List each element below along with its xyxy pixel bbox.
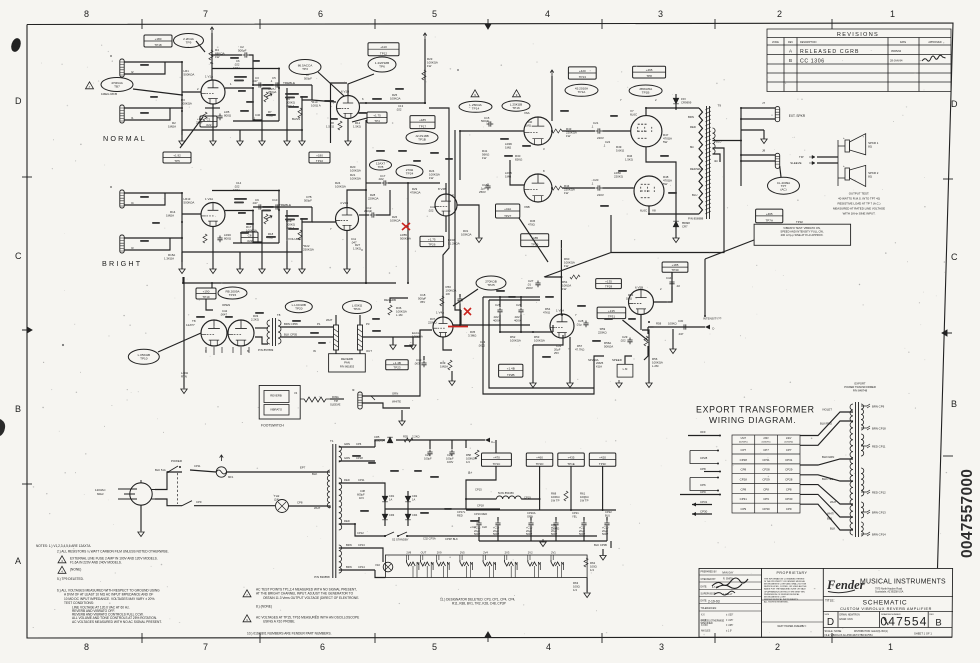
svg-text:WHT: WHT bbox=[326, 318, 333, 322]
wire to ground bbox=[212, 252, 214, 269]
heater bbox=[406, 560, 415, 566]
capacitor C21 bbox=[596, 128, 603, 133]
svg-text:VIOLET: VIOLET bbox=[822, 408, 832, 412]
svg-text:3.3MΩ: 3.3MΩ bbox=[468, 334, 476, 338]
ground bbox=[181, 386, 187, 394]
svg-text:CP11: CP11 bbox=[358, 478, 365, 482]
wire V7 plate to OT bbox=[646, 108, 699, 116]
wire grid V1A bbox=[182, 91, 201, 93]
treble pot bright bbox=[264, 214, 268, 224]
svg-text:CP12: CP12 bbox=[357, 531, 364, 535]
wire bbox=[346, 252, 348, 269]
wire V4A cathode bbox=[443, 337, 452, 350]
wire to speed pot bbox=[594, 356, 604, 377]
svg-text:BLK/YEL: BLK/YEL bbox=[822, 477, 834, 481]
svg-text:SCHEMATIC: SCHEMATIC bbox=[863, 599, 908, 606]
title block title divider bbox=[823, 596, 953, 598]
wire to ground bbox=[239, 252, 241, 269]
svg-text:TP4: TP4 bbox=[374, 119, 380, 123]
svg-text:C21: C21 bbox=[593, 121, 599, 125]
svg-text:.003: .003 bbox=[414, 362, 420, 366]
svg-text:REV: REV bbox=[788, 41, 793, 44]
svg-text:Scottsdale, AZ 85258 USA: Scottsdale, AZ 85258 USA bbox=[875, 591, 904, 594]
svg-text:CP14: CP14 bbox=[358, 565, 365, 569]
triode V4B bbox=[435, 194, 457, 216]
svg-text:CP15: CP15 bbox=[475, 488, 482, 492]
svg-text:BLU: BLU bbox=[692, 193, 697, 197]
svg-text:+110: +110 bbox=[380, 45, 387, 49]
export transformer primary coil bbox=[850, 404, 853, 535]
triode V3A bbox=[201, 320, 227, 346]
wire tone drop bright 3 bbox=[301, 218, 303, 252]
svg-text:DATE:: DATE: bbox=[701, 585, 708, 588]
svg-text:TP20: TP20 bbox=[295, 307, 303, 311]
svg-text:USING A X10 PROBE.: USING A X10 PROBE. bbox=[263, 620, 295, 624]
svg-text:TP8: TP8 bbox=[646, 74, 652, 78]
svg-text:GRN: GRN bbox=[344, 442, 350, 446]
svg-text:WHITE: WHITE bbox=[392, 400, 401, 404]
wire to J7 tip bbox=[741, 107, 775, 109]
reverb transformer core bbox=[275, 318, 277, 346]
svg-text:R. SMITH: R. SMITH bbox=[723, 578, 733, 580]
capacitor C1 box bbox=[200, 116, 217, 127]
svg-text:+1.75: +1.75 bbox=[428, 237, 436, 241]
ground vibrato bbox=[567, 380, 573, 388]
wire cap to rail bbox=[606, 528, 608, 542]
svg-text:400V: 400V bbox=[493, 319, 500, 323]
svg-text:100KΩ: 100KΩ bbox=[668, 322, 677, 326]
svg-text:1MΩ: 1MΩ bbox=[505, 175, 512, 179]
svg-text:A: A bbox=[15, 556, 21, 566]
export wiring table bbox=[732, 435, 800, 513]
svg-text:.0022: .0022 bbox=[478, 344, 485, 348]
wire cathode node bbox=[205, 107, 220, 109]
svg-text:1.5KΩ: 1.5KΩ bbox=[625, 158, 633, 162]
svg-text:TP3: TP3 bbox=[302, 67, 308, 71]
wire tip to speakers bbox=[817, 156, 838, 158]
wire line neutral bbox=[155, 499, 182, 506]
wire osc feed join bbox=[545, 276, 561, 278]
svg-text:CP29: CP29 bbox=[785, 468, 793, 472]
wire to J7 sleeve bbox=[741, 118, 775, 120]
svg-text:220KΩ: 220KΩ bbox=[428, 321, 437, 325]
svg-text:5.6KΩ: 5.6KΩ bbox=[616, 149, 625, 153]
svg-text:CR1: CR1 bbox=[389, 494, 395, 498]
test point oval reverb TP10 bbox=[128, 349, 159, 364]
wire to J8 tip bbox=[741, 154, 775, 156]
svg-text:MF1: MF1 bbox=[228, 475, 234, 479]
reverb transformer secondary bbox=[278, 320, 281, 344]
wire tone drop bright 1 bbox=[261, 210, 263, 252]
note triangle 3 bbox=[58, 556, 66, 563]
svg-text:220KΩ: 220KΩ bbox=[551, 527, 559, 531]
svg-text:6: 6 bbox=[320, 642, 325, 652]
svg-text:CP9: CP9 bbox=[196, 500, 202, 504]
thermistor TH2 bbox=[276, 500, 289, 513]
svg-text:8Ω: 8Ω bbox=[690, 145, 694, 149]
wire C2 left bbox=[212, 54, 242, 56]
svg-text:28-JAN-94: 28-JAN-94 bbox=[890, 59, 903, 63]
svg-text:TREBLE: TREBLE bbox=[283, 81, 295, 85]
wire tone upper rail bright bbox=[212, 191, 279, 244]
ground bbox=[390, 342, 396, 350]
svg-text:± .005": ± .005" bbox=[726, 625, 733, 627]
svg-text:.01μ: .01μ bbox=[576, 323, 582, 327]
svg-text:+135: +135 bbox=[608, 309, 615, 313]
test point box TP17 bbox=[410, 116, 435, 129]
RCA jack reverb send bbox=[334, 325, 339, 350]
reverb pot bbox=[388, 305, 392, 315]
svg-text:+1.4B: +1.4B bbox=[507, 367, 515, 371]
wire plate V1A out bbox=[225, 87, 253, 89]
svg-text:WIRING DIAGRAM.: WIRING DIAGRAM. bbox=[709, 415, 796, 425]
svg-text:1W: 1W bbox=[562, 287, 567, 291]
wire to ground bbox=[239, 130, 241, 141]
svg-text:BLK/RED: BLK/RED bbox=[820, 422, 832, 426]
svg-text:8 V4B: 8 V4B bbox=[438, 187, 446, 191]
capacitor C29 bbox=[627, 338, 632, 345]
wire to ground bbox=[261, 252, 263, 269]
vibrato output coupling bbox=[669, 280, 674, 287]
wire mixer bus right bbox=[407, 183, 409, 283]
svg-text:REV: REV bbox=[930, 614, 935, 616]
svg-text:BRN CP9: BRN CP9 bbox=[872, 404, 885, 408]
test point box TP1D bbox=[526, 453, 553, 466]
svg-text:100μF: 100μF bbox=[424, 457, 432, 461]
svg-text:CR3: CR3 bbox=[389, 513, 395, 517]
svg-text:1W: 1W bbox=[564, 191, 569, 195]
svg-text:TP17: TP17 bbox=[419, 124, 427, 128]
wire bottom rail normal bbox=[182, 129, 302, 131]
svg-text:2V1: 2V1 bbox=[551, 551, 556, 555]
wire zener bottom bbox=[675, 104, 677, 110]
svg-text:BRN CP13: BRN CP13 bbox=[872, 510, 886, 514]
svg-text:CP3P BLK: CP3P BLK bbox=[445, 537, 458, 541]
supply arrow mixer bbox=[423, 33, 427, 39]
svg-text:ALL RIGHTS RESERVED.: ALL RIGHTS RESERVED. bbox=[764, 600, 789, 603]
svg-text:2V5: 2V5 bbox=[460, 551, 465, 555]
svg-text:TP12: TP12 bbox=[380, 52, 388, 56]
svg-text:.022: .022 bbox=[378, 177, 384, 181]
wire RED CP11 bbox=[339, 483, 385, 491]
svg-text:100KΩA: 100KΩA bbox=[390, 219, 401, 223]
svg-text:CP30: CP30 bbox=[785, 497, 793, 501]
wire bridge mid bbox=[385, 508, 408, 510]
wire bias rail bbox=[396, 439, 485, 441]
diode bbox=[387, 437, 393, 443]
wire mixer plate supply bbox=[424, 39, 426, 103]
svg-text:7: 7 bbox=[203, 642, 208, 652]
T1 HV winding bbox=[339, 478, 342, 530]
svg-text:12AT7: 12AT7 bbox=[186, 323, 195, 327]
test point box TP4 bbox=[367, 112, 387, 123]
wire to ground bbox=[301, 130, 303, 141]
svg-text:C32 CP3A: C32 CP3A bbox=[423, 537, 436, 541]
svg-text:BLU: BLU bbox=[605, 514, 610, 518]
svg-text:100KΩA: 100KΩA bbox=[350, 169, 361, 173]
svg-text:2.) ALL RESISTORS ¼ WATT CARBO: 2.) ALL RESISTORS ¼ WATT CARBON FILM UNL… bbox=[57, 550, 169, 554]
svg-text:C: C bbox=[951, 252, 958, 262]
wire osc top bbox=[483, 296, 540, 298]
wire bottom rail bright bbox=[182, 251, 302, 253]
capacitor C28 bbox=[583, 321, 588, 328]
svg-text:I3: I3 bbox=[131, 246, 134, 250]
svg-text:IS THE PROPERTY OF FENDER MUSI: IS THE PROPERTY OF FENDER MUSICAL bbox=[764, 580, 806, 583]
svg-text:047554: 047554 bbox=[880, 615, 927, 629]
test point oval TP8 bbox=[370, 160, 392, 170]
wire bbox=[602, 549, 604, 556]
svg-text:B+: B+ bbox=[468, 471, 472, 475]
svg-text:P/N 830858: P/N 830858 bbox=[314, 575, 330, 579]
svg-text:GRN: GRN bbox=[344, 456, 350, 460]
svg-text:5: 5 bbox=[432, 642, 437, 652]
test point box TP26 bbox=[420, 236, 444, 246]
wire V5A cathode bbox=[533, 335, 563, 345]
svg-text:CR2: CR2 bbox=[412, 494, 418, 498]
svg-text:CP21: CP21 bbox=[572, 511, 579, 515]
svg-text:ANGLES: ANGLES bbox=[701, 629, 711, 632]
svg-text:47KΩ: 47KΩ bbox=[543, 311, 550, 315]
label smudges power amp bbox=[500, 138, 509, 140]
svg-text:VOLUME: VOLUME bbox=[288, 237, 301, 241]
wire to ground bbox=[212, 130, 214, 141]
wire C2 right bbox=[249, 55, 253, 85]
wire OT secondary out bbox=[713, 140, 742, 142]
wire NFB run bbox=[611, 148, 724, 253]
test point oval TP21 bbox=[343, 301, 372, 314]
wire leader TP4 bbox=[352, 118, 367, 122]
triode V6A phase inverter bbox=[524, 117, 552, 145]
svg-text:500pF: 500pF bbox=[304, 77, 312, 81]
wire V5B plate bbox=[654, 272, 673, 302]
wire plate V2B up bbox=[347, 190, 366, 208]
wire C25 stub bbox=[499, 297, 501, 307]
svg-text:REVISIONS: REVISIONS bbox=[837, 32, 879, 38]
svg-text:CP16 RED: CP16 RED bbox=[474, 512, 487, 516]
svg-text:TP31: TP31 bbox=[608, 314, 616, 318]
wire slope resistor bbox=[253, 88, 262, 120]
wire jack I1 sleeve bbox=[124, 108, 170, 120]
wire jack ground bbox=[763, 130, 765, 139]
svg-text:+460: +460 bbox=[536, 456, 543, 460]
svg-text:(50/60Hz): (50/60Hz) bbox=[739, 442, 748, 444]
wire jack I3 tip bbox=[124, 237, 182, 239]
ground bbox=[237, 138, 243, 146]
red correction line bbox=[448, 326, 468, 328]
wire bbox=[692, 513, 712, 515]
svg-text:C8: C8 bbox=[248, 234, 252, 238]
leader oval reverb bbox=[158, 333, 201, 352]
svg-text:B: B bbox=[789, 58, 792, 63]
wire cap stub bbox=[478, 517, 480, 521]
wire V7 cathode bbox=[646, 147, 676, 218]
wire cap stub bbox=[497, 517, 499, 521]
ground vibrato bbox=[616, 380, 622, 388]
scan artifact speck bbox=[62, 344, 64, 346]
heater bbox=[505, 560, 514, 566]
wire PI tail bbox=[510, 160, 524, 185]
svg-text:CP7: CP7 bbox=[740, 448, 746, 452]
svg-text:R58: R58 bbox=[656, 322, 662, 326]
svg-text:4: 4 bbox=[545, 9, 550, 19]
svg-text:THE INFORMATION CONTAINED HERE: THE INFORMATION CONTAINED HEREIN bbox=[764, 578, 805, 581]
svg-text:C1: C1 bbox=[207, 118, 211, 122]
test point box TP27 bbox=[496, 204, 520, 218]
ground vibrato bbox=[646, 380, 652, 388]
svg-text:CP8: CP8 bbox=[740, 468, 746, 472]
wire tone drop bright 2 bbox=[286, 210, 288, 252]
svg-text:± .030": ± .030" bbox=[726, 615, 733, 617]
ground bbox=[476, 235, 482, 243]
wire zener top bbox=[675, 94, 677, 98]
wire V1B output bbox=[360, 102, 426, 104]
svg-text:WHT/: WHT/ bbox=[827, 512, 834, 516]
svg-text:± 1.0°: ± 1.0° bbox=[726, 630, 732, 632]
export transformer tap labels bbox=[861, 404, 870, 408]
svg-text:100KΩA: 100KΩA bbox=[335, 185, 346, 189]
footswitch cable bbox=[300, 397, 330, 402]
svg-text:TP16: TP16 bbox=[512, 106, 520, 110]
wire standby out bbox=[407, 535, 440, 537]
svg-text:CP9: CP9 bbox=[763, 497, 769, 501]
svg-text:CP8: CP8 bbox=[786, 487, 792, 491]
svg-text:100KΩA: 100KΩA bbox=[461, 233, 472, 237]
svg-text:1: 1 bbox=[888, 642, 893, 652]
svg-text:L.1M: L.1M bbox=[396, 313, 403, 317]
svg-text:CP22: CP22 bbox=[605, 510, 612, 514]
svg-text:SPECIFIED: SPECIFIED bbox=[701, 623, 713, 625]
wire jack I3 sleeve bbox=[124, 238, 170, 250]
wire B+ riser 2 bbox=[539, 466, 541, 510]
svg-text:8: 8 bbox=[84, 9, 89, 19]
svg-text:TP18: TP18 bbox=[154, 43, 162, 47]
wire speaker bus bbox=[740, 108, 742, 186]
svg-text:TP23: TP23 bbox=[393, 366, 401, 370]
wire PI tail diagonal bbox=[519, 218, 548, 262]
revisions table bbox=[767, 29, 951, 92]
svg-text:P/N 856988: P/N 856988 bbox=[688, 217, 704, 221]
ground bbox=[284, 138, 290, 146]
wire V4A plate feed bbox=[442, 260, 444, 317]
wire cathode V4B bbox=[445, 216, 447, 232]
switch gang dashed link bbox=[177, 473, 179, 504]
reverb transformer core bbox=[272, 318, 274, 346]
svg-text:100KΩA: 100KΩA bbox=[510, 339, 521, 343]
svg-text:DATE:: DATE: bbox=[701, 599, 708, 602]
wire stub bbox=[392, 337, 394, 345]
title block lower row dividers bbox=[823, 612, 953, 628]
wire cap to rail bbox=[530, 528, 532, 542]
svg-text:.047: .047 bbox=[252, 79, 258, 83]
wire line safety ground bbox=[140, 505, 142, 531]
label smudges input area bbox=[140, 64, 149, 66]
wire cable to jack bbox=[330, 398, 344, 400]
svg-text:100V: 100V bbox=[447, 460, 453, 464]
wire B+ bus preamp bbox=[183, 282, 396, 284]
wire PI to C20 bbox=[562, 187, 595, 189]
ground vibrato bbox=[530, 380, 536, 388]
wire sleeve to speakers bbox=[817, 162, 838, 164]
wire bias bus bbox=[440, 535, 597, 537]
test point box TP1F bbox=[589, 453, 616, 466]
wire B+ bus lower bbox=[466, 509, 616, 511]
svg-text:CR7: CR7 bbox=[682, 225, 688, 229]
svg-text:100KΩA: 100KΩA bbox=[466, 457, 476, 461]
test point oval TP1Bb bbox=[629, 85, 662, 96]
choke L1 bbox=[496, 496, 521, 499]
wire reverb return bus bbox=[183, 277, 185, 388]
speed pot box bbox=[617, 364, 633, 377]
test point oval TP9 bbox=[174, 34, 204, 48]
svg-text:250pA: 250pA bbox=[268, 90, 276, 94]
wire to ground bbox=[261, 130, 263, 141]
resistor R61 symbol bbox=[564, 491, 568, 501]
svg-text:C22: C22 bbox=[605, 140, 611, 144]
svg-text:BLK: BLK bbox=[830, 527, 835, 531]
wire tone lower rail bright bbox=[233, 242, 279, 244]
test point box TP18 bbox=[144, 35, 172, 47]
footswitch box bbox=[259, 386, 300, 420]
svg-text:220KΩ: 220KΩ bbox=[598, 331, 607, 335]
svg-text:220KΩA: 220KΩA bbox=[368, 197, 379, 201]
svg-text:KΩA: KΩA bbox=[596, 365, 602, 369]
volume pot bright bbox=[298, 230, 302, 240]
capacitor C20 bbox=[596, 185, 603, 190]
svg-text:1MEG RIN5: 1MEG RIN5 bbox=[101, 92, 118, 96]
ground bbox=[259, 266, 265, 274]
svg-text:82KΩ: 82KΩ bbox=[515, 158, 523, 162]
RCA jack reverb return bbox=[358, 325, 363, 350]
svg-text:2: 2 bbox=[777, 9, 782, 19]
diode bbox=[405, 496, 411, 502]
wire cathode V1B bbox=[347, 119, 349, 130]
input jack I3 bbox=[120, 235, 124, 253]
intensity pot symbol bbox=[644, 336, 648, 346]
svg-text:I1: I1 bbox=[131, 116, 134, 120]
title block next higher assembly bbox=[762, 621, 824, 623]
svg-text:BLK CP05: BLK CP05 bbox=[284, 333, 298, 337]
svg-text:F1.6A IN 220V AND 240V MODELS.: F1.6A IN 220V AND 240V MODELS. bbox=[70, 561, 122, 565]
ground bbox=[237, 266, 243, 274]
svg-text:L.M: L.M bbox=[623, 367, 628, 371]
note triangle 7 bbox=[86, 82, 94, 89]
capacitor C17 bbox=[382, 180, 389, 185]
diode bbox=[673, 221, 679, 227]
wire BLK CP05 bbox=[280, 336, 333, 338]
svg-text:SLEEVE: SLEEVE bbox=[330, 403, 341, 407]
svg-text:I2: I2 bbox=[131, 70, 134, 74]
wire reverb return to V4A bbox=[363, 330, 433, 337]
svg-text:CP13: CP13 bbox=[358, 543, 365, 547]
triode V3B bbox=[228, 320, 254, 346]
wire C25 down bbox=[499, 314, 501, 332]
capacitor C19 bbox=[421, 361, 426, 368]
svg-text:+420: +420 bbox=[599, 456, 606, 460]
svg-text:BLK: BLK bbox=[312, 472, 317, 476]
svg-text:V6A: V6A bbox=[524, 111, 530, 115]
svg-text:V8: V8 bbox=[652, 209, 656, 213]
svg-text:CP31: CP31 bbox=[785, 458, 793, 462]
wire C18 down bbox=[459, 303, 461, 325]
svg-text:EP7: EP7 bbox=[300, 466, 306, 470]
wire to V5A grid bbox=[561, 304, 563, 315]
ground bbox=[210, 138, 216, 146]
wire bbox=[347, 130, 349, 141]
svg-text:CP28: CP28 bbox=[700, 456, 708, 460]
svg-text:FILE: VIBROLUX ALL/PROJ/ET/CT: FILE: VIBROLUX ALL/PROJ/ET/CTBO/047554 bbox=[825, 634, 874, 637]
svg-text:EXPORT TRANSFORMER: EXPORT TRANSFORMER bbox=[696, 405, 815, 415]
svg-text:SPEED AND INTENSITY FULL CW,: SPEED AND INTENSITY FULL CW, bbox=[780, 229, 823, 233]
